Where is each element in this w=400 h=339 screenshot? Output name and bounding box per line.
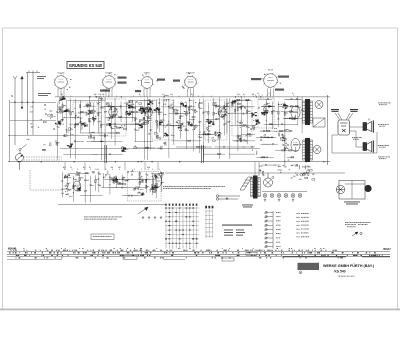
capacitor C145 [127, 171, 130, 173]
node J46 [200, 132, 201, 133]
resistor R151 [113, 180, 114, 183]
value label [116, 108, 118, 111]
value label [208, 119, 210, 122]
value label [153, 184, 156, 187]
value label [112, 177, 114, 180]
value label [107, 123, 109, 126]
value label [64, 104, 66, 107]
resistor R150 [115, 181, 118, 182]
wire [105, 169, 107, 171]
capacitor C27 [143, 108, 146, 110]
wire [104, 97, 106, 159]
resistor R47 [117, 127, 120, 128]
node J76 [117, 181, 118, 182]
resistor R135 [73, 186, 74, 189]
wire [271, 111, 278, 113]
wire [133, 169, 135, 171]
resistor R76 [175, 113, 178, 114]
capacitor C78 [221, 115, 223, 118]
capacitor C124 [45, 113, 47, 116]
resistor R8 [98, 113, 99, 116]
node J36 [229, 121, 230, 122]
value label [259, 170, 262, 173]
pickup cartridge [364, 185, 371, 192]
value label [100, 184, 101, 187]
node J58 [278, 104, 279, 105]
capacitor C49 [148, 99, 151, 101]
resistor R134 [67, 183, 68, 186]
resistor R152 [77, 190, 80, 191]
value label [209, 125, 212, 128]
value label [112, 114, 115, 117]
resistor R19 [119, 116, 122, 117]
capacitor C24 [138, 109, 141, 111]
node J52 [216, 119, 217, 120]
capacitor C151 [68, 174, 71, 176]
value label [180, 126, 182, 129]
wire [74, 99, 76, 159]
component cluster [152, 186, 158, 190]
capacitor C59 [202, 111, 204, 114]
capacitor C72 [157, 135, 160, 137]
component cluster [231, 100, 236, 103]
capacitor C17 [107, 105, 110, 107]
value label [301, 216, 309, 219]
capacitor C28 [139, 110, 142, 112]
value label [141, 175, 143, 178]
wire [214, 146, 245, 148]
wire [67, 99, 105, 101]
resistor R139 [139, 172, 140, 175]
wire [104, 178, 135, 180]
value label [299, 178, 302, 181]
ground [292, 199, 295, 202]
capacitor C56 [198, 106, 200, 109]
value label [286, 138, 287, 141]
resistor R110 [290, 106, 293, 107]
inductor L43 [137, 192, 141, 195]
resistor R58 [173, 109, 174, 112]
wire [102, 173, 104, 188]
value label [279, 103, 282, 106]
pin number [109, 72, 110, 75]
node J70 [152, 176, 153, 177]
value label [66, 187, 69, 190]
ground [154, 216, 157, 219]
pin label group [118, 82, 127, 84]
value label [84, 123, 85, 126]
capacitor C125 [44, 104, 47, 106]
capacitor C107 [260, 136, 263, 138]
value label [276, 224, 281, 227]
value label [242, 105, 244, 108]
node J31 [193, 129, 194, 130]
value label [157, 176, 159, 179]
wire [92, 153, 123, 155]
value label [204, 110, 206, 113]
resistor R43 [61, 98, 64, 99]
value label [239, 134, 242, 137]
wire [135, 140, 154, 142]
resistor R24 [128, 107, 131, 108]
node J48 [255, 125, 256, 126]
inductor L40 [106, 171, 109, 175]
wire [287, 156, 294, 158]
wire [277, 102, 279, 128]
wire [202, 96, 204, 98]
resistor R90 [199, 102, 202, 103]
node J47 [196, 111, 197, 112]
value label [115, 125, 117, 128]
value label [125, 148, 128, 151]
wire [301, 96, 303, 133]
resistor R100 [188, 107, 189, 110]
value label [136, 118, 138, 121]
capacitor C80 [251, 116, 254, 118]
coil former T25 [263, 108, 266, 111]
capacitor C96 [297, 105, 299, 108]
resistor R88 [216, 105, 219, 106]
band switch S2 [19, 145, 27, 155]
tube Rö3 [218, 107, 226, 117]
wire [101, 187, 119, 189]
resistor R93 [158, 110, 159, 113]
value label [190, 99, 192, 102]
value label [253, 113, 255, 116]
wire [206, 118, 218, 120]
mains plug wires [225, 196, 240, 199]
value label [195, 109, 196, 112]
resistor R40 [108, 118, 109, 121]
component cluster [268, 105, 272, 107]
wire [261, 130, 276, 132]
value label [258, 121, 260, 124]
wire [98, 171, 100, 192]
value label [160, 111, 162, 114]
value label [237, 98, 239, 101]
value label [77, 116, 78, 119]
wire [109, 174, 111, 195]
inductor L2 [79, 118, 82, 122]
resistor R82 [217, 153, 220, 154]
wire [80, 195, 103, 197]
value label [379, 146, 386, 149]
inductor L28 [186, 121, 190, 124]
wire [94, 96, 96, 98]
value label [239, 138, 242, 141]
value label [70, 143, 73, 146]
capacitor C37 [101, 98, 104, 100]
value label [291, 117, 294, 120]
resistor R28 [129, 111, 130, 114]
capacitor C150 [153, 187, 155, 190]
value label [124, 102, 126, 105]
component cluster [92, 117, 96, 121]
coil former T19 [221, 114, 224, 117]
component cluster [64, 175, 67, 178]
switch column 2 labels [205, 206, 213, 209]
value label [276, 232, 281, 235]
wire [192, 124, 200, 126]
resistor R4 [74, 125, 75, 128]
antenna lead-in wires [26, 71, 40, 136]
resistor R160 [309, 170, 312, 171]
value label [267, 102, 269, 105]
resistor R10 [104, 134, 105, 137]
AF bottom bus [58, 203, 165, 205]
value label [248, 110, 251, 113]
value label [83, 166, 85, 169]
antenna A1 [13, 76, 17, 145]
value label [84, 122, 86, 125]
node J62 [67, 176, 68, 177]
tweeter LS4 [313, 146, 321, 154]
resistor R81 [197, 146, 200, 147]
capacitor C51 [151, 100, 153, 103]
value label [378, 156, 390, 159]
value label [217, 134, 220, 137]
svg-text:GRUNDIG KS 540: GRUNDIG KS 540 [69, 63, 102, 68]
inductor L46 [67, 176, 71, 179]
capacitor C25 [80, 121, 82, 124]
value label [157, 186, 159, 189]
wire [67, 174, 69, 192]
wire [234, 140, 245, 142]
value label [130, 113, 132, 116]
capacitor C58 [198, 135, 200, 138]
resistor R118 [282, 150, 285, 151]
wire [252, 96, 254, 98]
value label [259, 165, 262, 168]
pin number [70, 78, 71, 81]
resistor R60 [186, 112, 187, 115]
wire [237, 100, 239, 151]
node J16 [112, 116, 113, 117]
wire [83, 105, 96, 107]
output transformer winding upper [303, 101, 313, 123]
control item 2 [265, 216, 273, 218]
capacitor C66 [166, 124, 169, 126]
inductor L5 [113, 114, 117, 117]
value label [274, 127, 277, 130]
wire [116, 96, 118, 98]
value label [280, 139, 282, 142]
capacitor C138 [130, 195, 133, 197]
left feed wire 1 [10, 101, 56, 103]
resistor R26 [84, 125, 87, 126]
output transformer winding lower [303, 140, 313, 160]
resistor R64 [219, 111, 220, 114]
value label [85, 189, 88, 192]
wire [158, 169, 160, 171]
resistor R105 [272, 111, 273, 114]
component cluster [141, 110, 146, 114]
tube EF89 [140, 76, 154, 90]
value label [112, 105, 114, 108]
wire [185, 102, 187, 149]
wire [284, 98, 301, 100]
wire [210, 96, 212, 98]
value label [124, 150, 126, 153]
value label [68, 188, 71, 191]
value label [220, 109, 222, 112]
wire [148, 169, 150, 171]
value label [131, 170, 134, 173]
node J22 [159, 121, 160, 122]
capacitor C121 [281, 134, 283, 137]
value label [225, 105, 227, 108]
resistor R124 [278, 133, 279, 136]
resistor R120 [291, 157, 294, 158]
pin number [183, 87, 184, 90]
wire [106, 123, 135, 125]
resistor R25 [144, 108, 147, 109]
bus junction dots [18, 96, 325, 162]
dial scale lower segment [7, 258, 62, 260]
inductor L48 [278, 169, 282, 172]
inductor L29 [255, 151, 258, 155]
resistor R89 [176, 110, 177, 113]
value label [215, 112, 217, 115]
resistor R128 [256, 122, 259, 123]
value label [104, 176, 106, 179]
value label [99, 101, 100, 104]
wire [284, 149, 298, 151]
phono preamp box [128, 172, 162, 202]
resistor R136 [79, 178, 80, 181]
node J20 [111, 128, 112, 129]
value label [259, 169, 261, 172]
node J35 [226, 122, 227, 123]
capacitor C62 [246, 125, 248, 128]
value label [84, 218, 117, 221]
value label [143, 117, 145, 120]
wire [260, 143, 270, 145]
node J64 [73, 192, 74, 193]
wire [261, 136, 274, 138]
capacitor C95 [284, 129, 286, 132]
value label [255, 118, 257, 121]
node J54 [185, 106, 186, 107]
value label [214, 104, 217, 107]
capacitor C15 [148, 99, 151, 101]
resistor R68 [234, 109, 235, 112]
wire [277, 130, 288, 132]
value label [78, 171, 81, 174]
value label [191, 93, 193, 96]
control item 5 [265, 228, 273, 230]
value label [181, 115, 183, 118]
value label [97, 168, 100, 171]
value label [133, 103, 135, 106]
wire [141, 169, 143, 171]
wire [132, 96, 134, 98]
resistor R123 [285, 146, 286, 149]
capacitor C127 [61, 179, 63, 182]
node J38 [241, 121, 242, 122]
value label [194, 127, 196, 130]
wire [263, 136, 269, 138]
node J59 [258, 119, 259, 120]
dial lamp La1 [263, 194, 267, 198]
inductor L25 [214, 104, 217, 108]
diagonal pointer arrow [138, 207, 148, 214]
capacitor C53 [158, 102, 160, 105]
node J1 [57, 126, 58, 127]
wire [158, 98, 160, 132]
value label [185, 129, 187, 132]
capacitor C31 [58, 120, 61, 122]
inductor L22 [160, 119, 164, 122]
value label [378, 102, 391, 105]
value label [162, 120, 163, 123]
value label [89, 166, 90, 169]
resistor R111 [289, 111, 292, 112]
value label [162, 181, 163, 184]
value label [63, 166, 66, 169]
value label [112, 179, 113, 182]
value label [111, 166, 113, 169]
wire [278, 105, 294, 107]
resistor R96 [165, 142, 166, 145]
inductor L21 [164, 94, 168, 97]
pin number [69, 86, 70, 89]
value label [191, 122, 193, 125]
capacitor C61 [223, 123, 225, 126]
IF transformer can Fi3 [152, 100, 173, 140]
node J2 [66, 111, 67, 112]
node J11 [150, 111, 151, 112]
bottom bus wire [8, 161, 330, 163]
wire [110, 187, 148, 189]
component cluster [88, 110, 92, 115]
wire [131, 100, 133, 122]
coil former T33 [303, 173, 305, 175]
capacitor C2 [62, 111, 64, 114]
value label [145, 106, 148, 109]
dial drive cord [200, 145, 203, 163]
wire [234, 99, 251, 101]
component cluster [139, 125, 143, 128]
capacitor C43 [147, 120, 150, 122]
value label [291, 164, 293, 167]
wire [229, 153, 255, 155]
value label [140, 188, 143, 191]
value label [194, 128, 195, 131]
value label [176, 109, 178, 112]
resistor R83 [156, 135, 157, 138]
value label [45, 108, 46, 111]
resistor R145 [155, 184, 156, 187]
coil former T18 [224, 114, 226, 116]
pointer symbol [352, 232, 362, 236]
value label [96, 178, 98, 181]
resistor R85 [223, 116, 224, 119]
inductor L7 [67, 108, 70, 112]
resistor R77 [243, 125, 246, 126]
wire [130, 111, 155, 113]
inductor L24 [158, 147, 162, 150]
wire [213, 98, 215, 123]
capacitor C119 [282, 137, 285, 139]
value label [111, 115, 113, 118]
wire [255, 95, 257, 97]
value label [286, 147, 289, 150]
capacitor C26 [86, 123, 88, 126]
component cluster [188, 122, 193, 126]
resistor R20 [136, 123, 139, 124]
capacitor C148 [120, 183, 123, 185]
